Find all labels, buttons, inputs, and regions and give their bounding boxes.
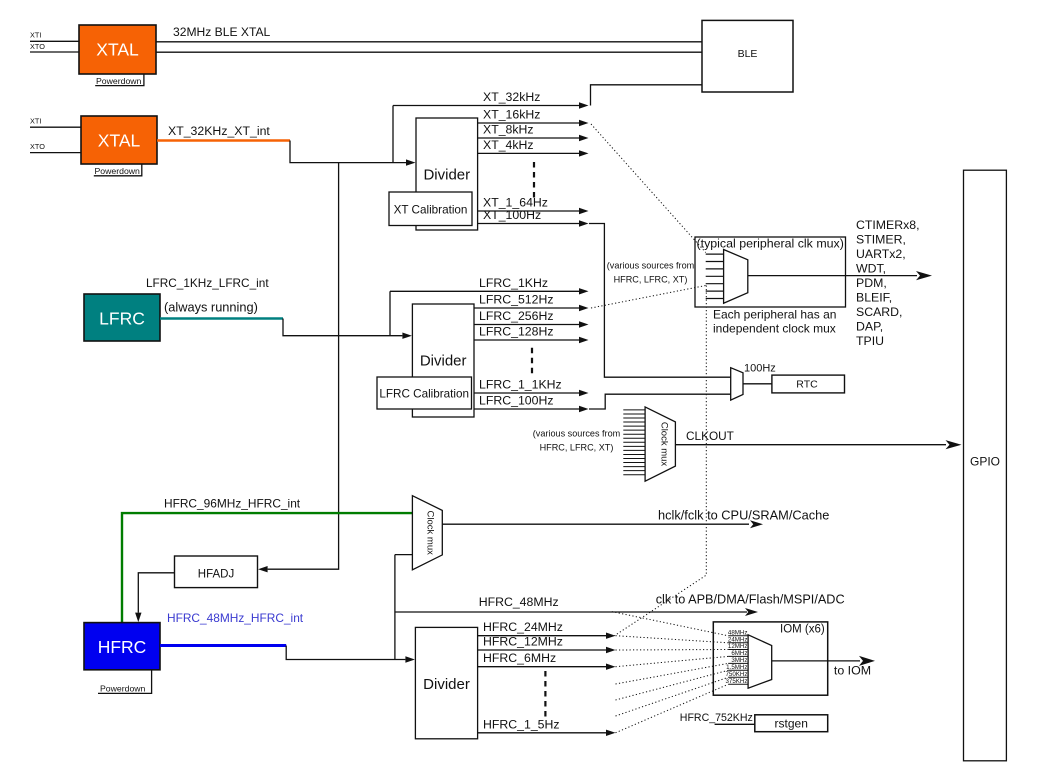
svg-text:XT_32kHz: XT_32kHz [483,90,540,104]
svg-text:750KHz: 750KHz [725,671,747,678]
svg-text:375KHz: 375KHz [725,678,747,685]
svg-text:XT_16kHz: XT_16kHz [483,108,540,122]
svg-text:HFRC_48MHz_HFRC_int: HFRC_48MHz_HFRC_int [167,611,304,625]
svg-text:DAP,: DAP, [856,319,883,333]
svg-text:Divider: Divider [423,676,470,693]
svg-text:(various sources from: (various sources from [607,261,694,271]
svg-text:HFRC_12MHz: HFRC_12MHz [483,635,563,649]
svg-text:STIMER,: STIMER, [856,232,906,246]
svg-text:TPIU: TPIU [856,334,884,348]
svg-text:XTO: XTO [30,142,45,151]
svg-text:to IOM: to IOM [834,664,871,678]
svg-text:(always running): (always running) [164,300,258,315]
svg-text:clk to APB/DMA/Flash/MSPI/ADC: clk to APB/DMA/Flash/MSPI/ADC [656,592,845,606]
svg-text:XTAL: XTAL [98,131,141,151]
svg-text:Each peripheral has an: Each peripheral has an [713,307,836,321]
svg-text:HFRC, LFRC, XT): HFRC, LFRC, XT) [614,275,688,285]
svg-text:HFRC_752KHz: HFRC_752KHz [680,712,753,724]
svg-text:HFRC_1_5Hz: HFRC_1_5Hz [483,717,560,731]
svg-text:(various sources from: (various sources from [533,429,620,439]
svg-text:XT_4kHz: XT_4kHz [483,138,534,152]
svg-text:HFRC, LFRC, XT): HFRC, LFRC, XT) [540,443,614,453]
svg-text:HFRC: HFRC [98,637,147,657]
svg-text:HFRC_24MHz: HFRC_24MHz [483,620,563,634]
svg-text:Clock mux: Clock mux [659,422,670,467]
svg-text:LFRC: LFRC [99,309,145,329]
svg-text:XT Calibration: XT Calibration [394,203,468,216]
svg-text:Powerdown: Powerdown [100,684,146,694]
svg-text:Divider: Divider [423,167,470,184]
svg-text:HFRC_96MHz_HFRC_int: HFRC_96MHz_HFRC_int [164,497,301,511]
svg-text:HFADJ: HFADJ [198,568,234,580]
svg-text:LFRC Calibration: LFRC Calibration [379,387,469,400]
svg-text:Clock mux: Clock mux [424,511,435,556]
svg-text:(typical peripheral clk mux): (typical peripheral clk mux) [697,236,844,250]
svg-text:Powerdown: Powerdown [95,166,141,176]
svg-text:BLE: BLE [738,48,758,60]
svg-text:Powerdown: Powerdown [96,76,142,86]
svg-text:CLKOUT: CLKOUT [686,429,734,443]
svg-text:CTIMERx8,: CTIMERx8, [856,218,920,232]
svg-text:LFRC_128Hz: LFRC_128Hz [479,325,554,339]
svg-text:PDM,: PDM, [856,276,887,290]
svg-text:LFRC_256Hz: LFRC_256Hz [479,309,554,323]
svg-text:LFRC_1KHz_LFRC_int: LFRC_1KHz_LFRC_int [146,276,269,290]
svg-text:BLEIF,: BLEIF, [856,290,892,304]
svg-text:XTI: XTI [30,31,41,40]
svg-text:RTC: RTC [796,378,818,390]
svg-text:rstgen: rstgen [775,717,808,731]
svg-text:XT_8kHz: XT_8kHz [483,123,534,137]
svg-text:100Hz: 100Hz [744,363,776,375]
svg-text:IOM (x6): IOM (x6) [780,623,825,635]
svg-text:XTO: XTO [30,42,45,51]
svg-text:LFRC_1_1KHz: LFRC_1_1KHz [479,378,562,392]
svg-text:XT_100Hz: XT_100Hz [483,208,541,222]
svg-text:XTAL: XTAL [96,40,139,60]
svg-text:48MHz: 48MHz [728,629,748,636]
svg-text:SCARD,: SCARD, [856,305,902,319]
svg-text:Divider: Divider [420,353,467,370]
svg-text:LFRC_512Hz: LFRC_512Hz [479,293,554,307]
svg-text:HFRC_6MHz: HFRC_6MHz [483,651,556,665]
svg-text:HFRC_48MHz: HFRC_48MHz [479,595,559,609]
svg-text:LFRC_1KHz: LFRC_1KHz [479,276,548,290]
svg-text:WDT,: WDT, [856,261,886,275]
svg-text:UARTx2,: UARTx2, [856,247,906,261]
svg-text:XTI: XTI [30,116,41,125]
svg-text:1.5MHz: 1.5MHz [726,664,747,671]
svg-text:XT_32KHz_XT_int: XT_32KHz_XT_int [168,124,270,138]
svg-text:hclk/fclk to CPU/SRAM/Cache: hclk/fclk to CPU/SRAM/Cache [658,508,829,523]
svg-text:32MHz BLE XTAL: 32MHz BLE XTAL [173,25,271,39]
svg-text:LFRC_100Hz: LFRC_100Hz [479,394,554,408]
svg-text:GPIO: GPIO [970,455,1000,469]
svg-text:6MHz: 6MHz [731,650,747,657]
svg-text:independent clock mux: independent clock mux [713,321,836,335]
